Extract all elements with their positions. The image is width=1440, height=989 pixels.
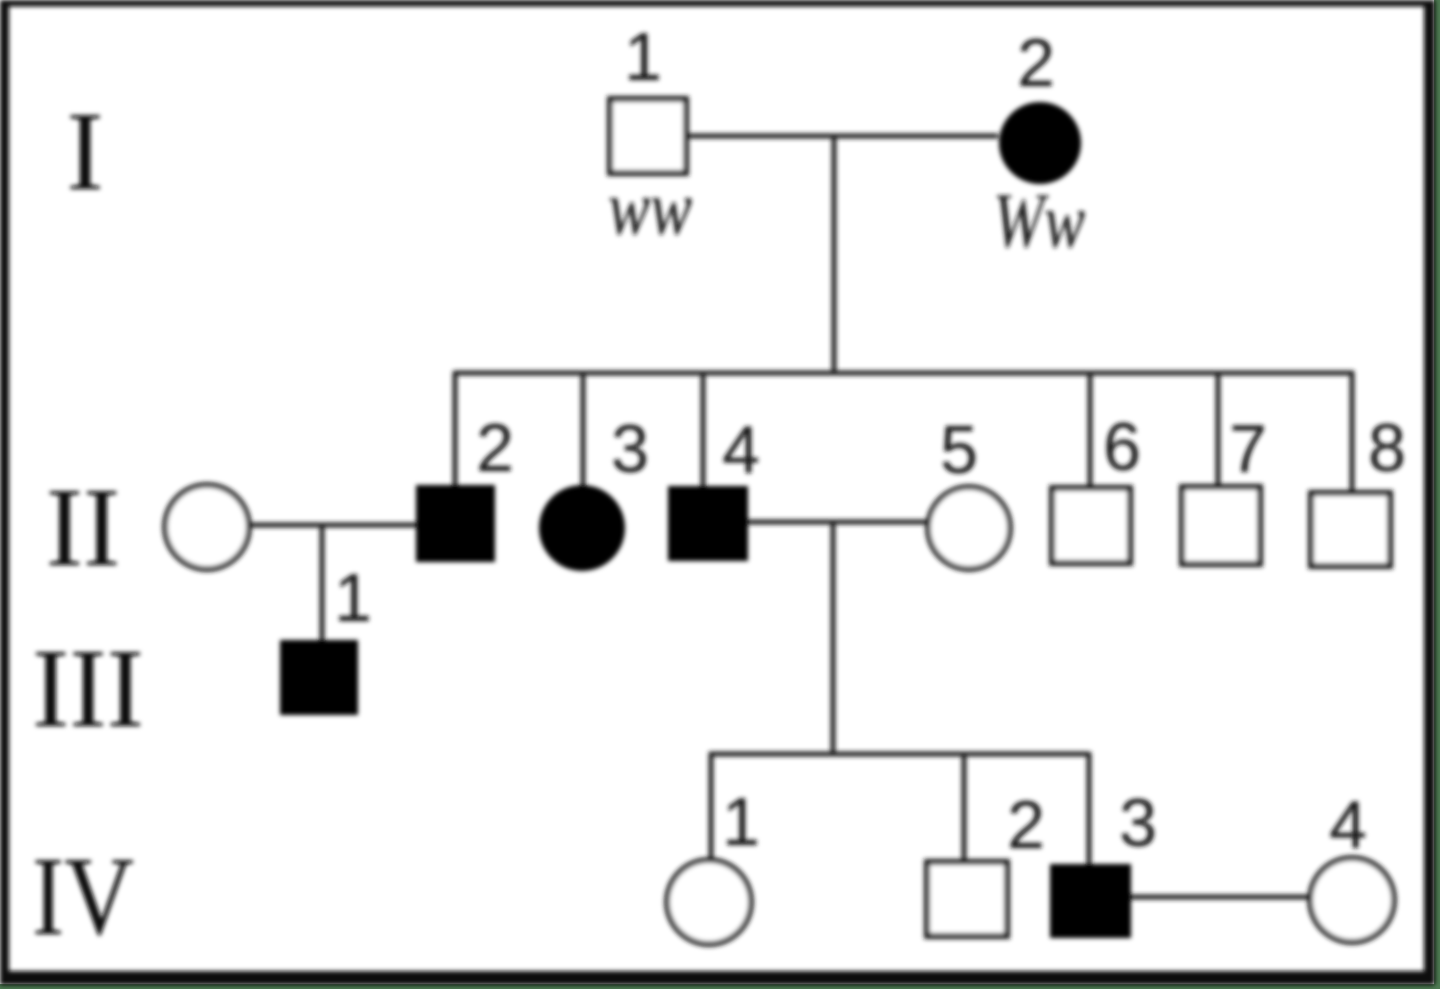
individual II-8 male square (1311, 493, 1390, 566)
svg-text:3: 3 (611, 411, 649, 487)
svg-text:ww: ww (608, 164, 692, 251)
individual II-7 male square (1182, 487, 1260, 564)
svg-text:2: 2 (1017, 25, 1055, 101)
sibship line generation II (454, 371, 1354, 376)
green page edge bottom (0, 984, 1440, 989)
drop line to II-7 (1216, 371, 1221, 489)
drop line to II-6 (1088, 371, 1093, 490)
drop line to IV-2 (962, 752, 967, 864)
descent line to III-1 (320, 525, 325, 641)
svg-text:8: 8 (1368, 410, 1406, 486)
svg-text:2: 2 (1007, 787, 1045, 863)
svg-text:3: 3 (1119, 785, 1157, 861)
drop line to II-4 (701, 371, 706, 488)
individual II-4 affected male square (668, 486, 748, 561)
descent line from II-4/II-5 couple (831, 522, 836, 756)
drop line to IV-1 (709, 752, 714, 862)
svg-text:Ww: Ww (993, 177, 1085, 264)
svg-text:IV: IV (32, 835, 134, 959)
svg-text:5: 5 (940, 412, 978, 488)
svg-text:4: 4 (1329, 787, 1367, 863)
svg-text:1: 1 (722, 784, 760, 860)
individual IV-1 female circle (667, 860, 751, 944)
drop line to IV-3 (1087, 752, 1092, 866)
svg-text:I: I (66, 90, 103, 214)
individual II-3 affected female circle (539, 485, 625, 571)
individual IV-4 female circle (1310, 858, 1394, 942)
marriage line II-1 to II-2 (249, 523, 416, 528)
individual I-2 affected female circle (999, 102, 1081, 184)
individual II-6 male square (1052, 488, 1130, 563)
svg-text:1: 1 (624, 19, 662, 95)
svg-text:III: III (32, 627, 144, 751)
individual IV-3 affected male square (1050, 864, 1131, 938)
svg-text:2: 2 (476, 410, 514, 486)
marriage line IV-3 to IV-4 (1131, 895, 1312, 900)
descent line from I couple (832, 136, 837, 375)
svg-text:1: 1 (334, 560, 372, 636)
individual IV-2 male square (927, 862, 1007, 936)
svg-text:4: 4 (722, 412, 760, 488)
individual II-5 female circle (928, 487, 1010, 569)
drop line to II-8 (1350, 371, 1355, 495)
drop line to II-3 (581, 371, 586, 489)
drop line to II-2 (453, 371, 458, 487)
svg-text:6: 6 (1103, 409, 1141, 485)
individual III-1 affected male square (280, 640, 358, 715)
svg-text:7: 7 (1229, 411, 1267, 487)
sibship line generation IV (709, 752, 1089, 757)
svg-text:II: II (46, 466, 121, 590)
marriage line II-4 to II-5 (748, 520, 930, 525)
marriage line I-1 to I-2 (686, 134, 998, 139)
green page edge right (1434, 0, 1440, 989)
individual I-1 male square (610, 99, 686, 173)
individual II-2 affected male square (416, 485, 495, 562)
individual II-1 female circle (165, 485, 249, 569)
